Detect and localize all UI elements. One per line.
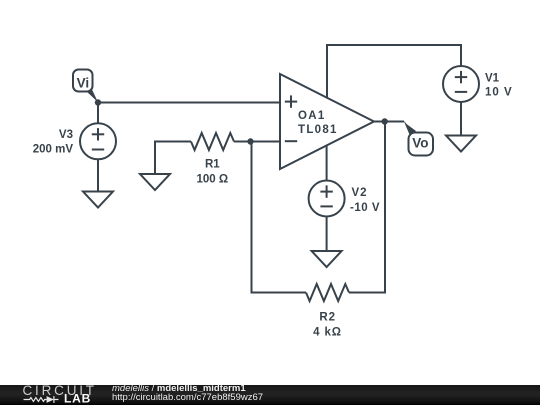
svg-text:R2: R2 bbox=[319, 311, 336, 323]
svg-text:4 kΩ: 4 kΩ bbox=[313, 326, 342, 338]
svg-text:V1: V1 bbox=[485, 73, 500, 85]
svg-text:200 mV: 200 mV bbox=[33, 144, 74, 156]
svg-text:Vo: Vo bbox=[412, 136, 428, 151]
svg-text:100 Ω: 100 Ω bbox=[196, 174, 228, 186]
svg-text:OA1: OA1 bbox=[298, 110, 326, 122]
svg-text:V3: V3 bbox=[59, 129, 73, 141]
svg-text:10 V: 10 V bbox=[485, 86, 513, 98]
svg-text:TL081: TL081 bbox=[298, 124, 338, 136]
svg-text:V2: V2 bbox=[352, 187, 368, 199]
svg-text:Vi: Vi bbox=[77, 76, 90, 91]
svg-text:LAB: LAB bbox=[64, 392, 91, 405]
svg-text:-10 V: -10 V bbox=[350, 202, 380, 214]
svg-text:R1: R1 bbox=[205, 159, 220, 171]
